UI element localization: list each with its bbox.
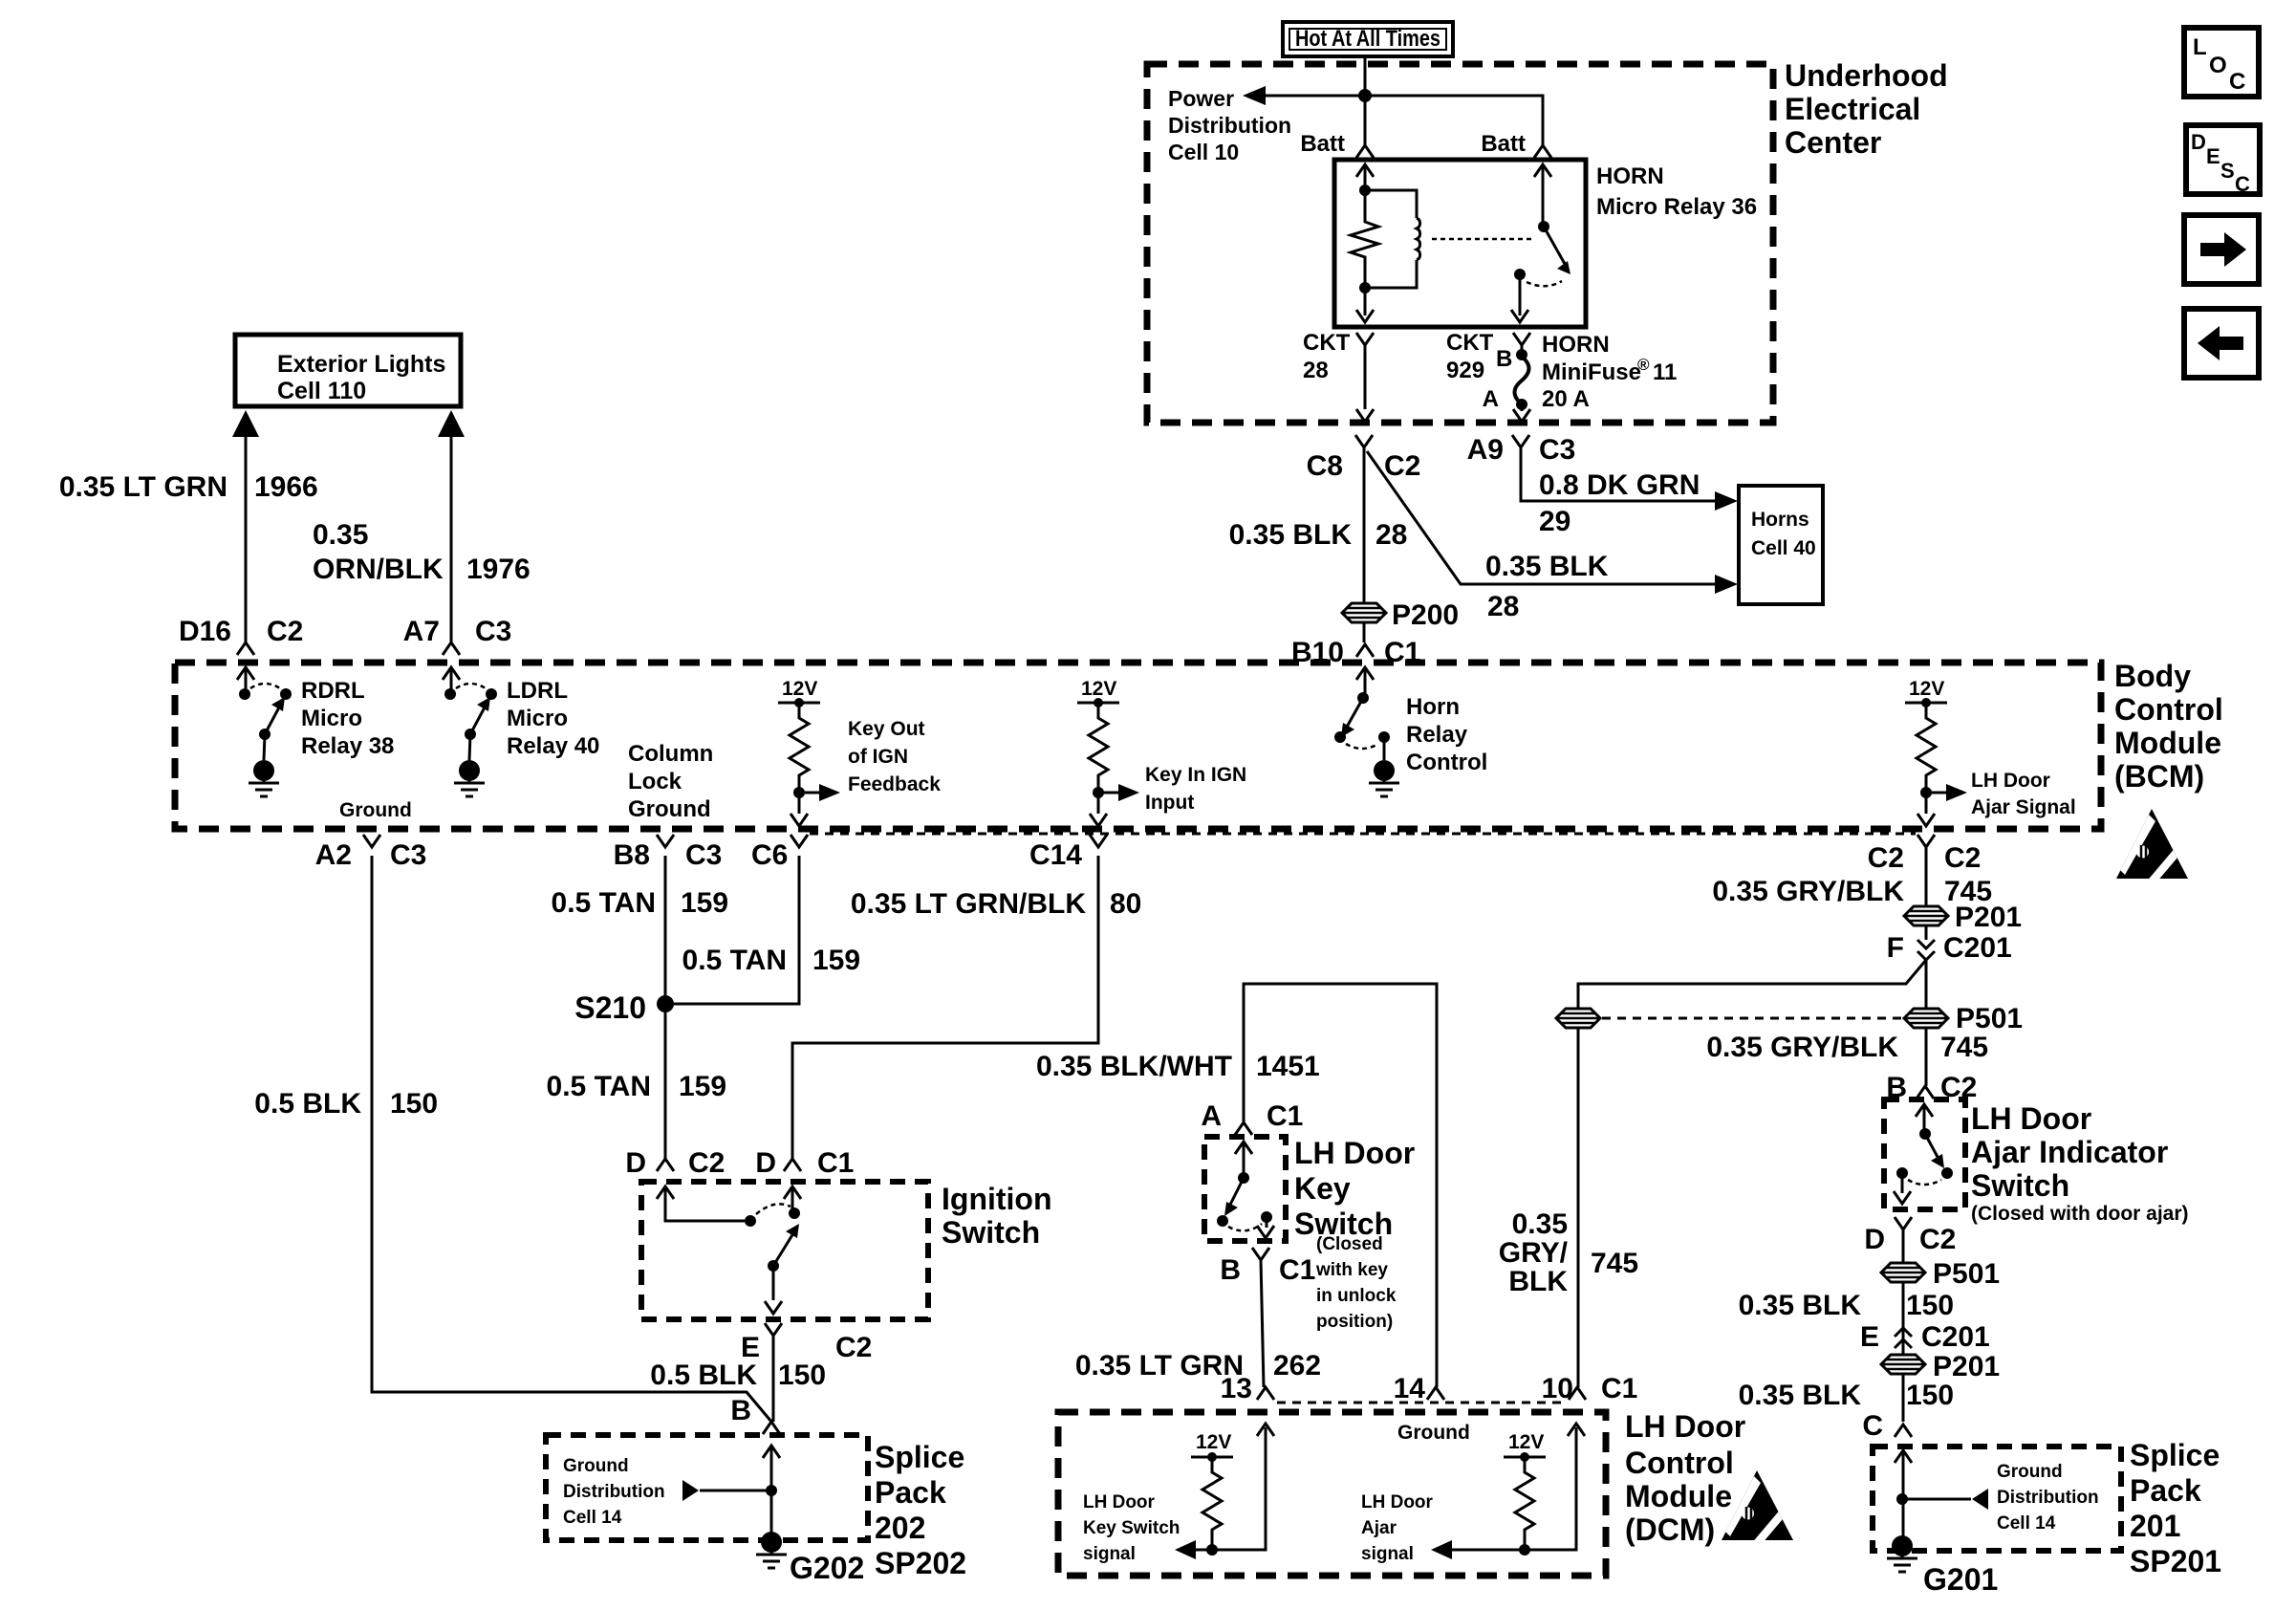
wire C6 branch to S210 [665, 856, 799, 1004]
wire P200 to BCM [1363, 622, 1366, 642]
svg-text:12V: 12V [1508, 1431, 1544, 1453]
wire 0.35 BLK 28 branch to Horns [1367, 451, 1738, 594]
pin arrow into relay switch side [1534, 164, 1551, 227]
svg-text:GRY/: GRY/ [1499, 1237, 1569, 1269]
svg-text:G202: G202 [790, 1551, 864, 1585]
label 0.35 LT GRN 262 [1075, 1350, 1321, 1382]
label 0.35 BLK 150 upper right [1739, 1290, 1954, 1321]
svg-text:S: S [2220, 159, 2235, 183]
switch LH Door Key Switch box [1204, 1137, 1286, 1241]
label A7 C3 [403, 616, 512, 647]
label 0.35 LT GRN/BLK 80 [851, 888, 1142, 920]
svg-text:Module: Module [2114, 726, 2221, 760]
svg-text:in unlock: in unlock [1316, 1286, 1397, 1306]
node coil top junction [1359, 185, 1371, 196]
svg-text:Distribution: Distribution [1997, 1488, 2099, 1508]
svg-text:Cell 14: Cell 14 [563, 1508, 622, 1528]
wire 0.5 BLK 150 ground run from A2 [372, 856, 771, 1422]
switch Horn Relay Control [1334, 667, 1399, 796]
pin arrow ignition D C2 [657, 1186, 745, 1221]
wire dashed travel arc relay [1527, 281, 1562, 286]
label Ground Distribution Cell 14 left [563, 1456, 665, 1528]
label Body Control Module BCM [2114, 659, 2223, 794]
svg-text:LH Door: LH Door [1971, 770, 2050, 792]
module box LH Door Control Module DCM [1058, 1412, 1606, 1576]
switch key movable arm [1224, 1172, 1249, 1216]
wire relay actuation dashed link [1432, 238, 1534, 241]
pin arrow ignition D C1 [784, 1186, 801, 1208]
label D C2 ajar output [1864, 1224, 1956, 1255]
wire key switch output B [1257, 1217, 1274, 1238]
wire C14 key in ign input 80 [792, 856, 1098, 1159]
connector P200 [1342, 599, 1459, 631]
module box Splice Pack 202 [546, 1435, 868, 1540]
connector P501 [1904, 1003, 2023, 1034]
svg-text:Lock: Lock [628, 769, 682, 794]
svg-text:0.35 GRY/BLK: 0.35 GRY/BLK [1712, 876, 1904, 907]
svg-text:12V: 12V [782, 678, 817, 700]
svg-text:0.35 BLK: 0.35 BLK [1229, 519, 1353, 551]
wire branch to DCM pin 10 [1578, 960, 1926, 1009]
svg-text:C2: C2 [267, 616, 303, 647]
wire RDRL output to Exterior Lights 1966 [232, 410, 259, 655]
wire lens to DCM pin 10 [1577, 1028, 1580, 1387]
svg-text:Hot At All Times: Hot At All Times [1295, 26, 1440, 52]
module box Splice Pack 201 [1873, 1447, 2121, 1551]
svg-text:0.35 LT GRN: 0.35 LT GRN [1075, 1350, 1244, 1382]
svg-text:150: 150 [390, 1088, 438, 1120]
svg-text:®: ® [1637, 356, 1650, 374]
svg-text:10: 10 [1542, 1373, 1573, 1404]
svg-text:LH Door: LH Door [1083, 1492, 1156, 1512]
label Underhood Electrical Center [1785, 58, 1948, 160]
label D C1 ignition [755, 1147, 854, 1179]
wire ground distribution branch SP201 [1896, 1489, 1988, 1510]
svg-text:C: C [2235, 172, 2250, 196]
svg-text:0.5 BLK: 0.5 BLK [650, 1360, 757, 1391]
wire LDRL output to Exterior Lights 1976 [438, 410, 465, 655]
svg-text:HORN: HORN [1542, 332, 1610, 358]
svg-text:Splice: Splice [875, 1440, 964, 1474]
svg-text:Exterior Lights: Exterior Lights [277, 351, 445, 378]
label 0.5 BLK 150 left [254, 1088, 438, 1120]
svg-text:Splice: Splice [2130, 1438, 2220, 1472]
svg-text:Ground: Ground [1997, 1462, 2063, 1482]
svg-text:A7: A7 [403, 616, 440, 647]
connector fork ajar B C2 [1917, 1086, 1934, 1099]
svg-text:Electrical: Electrical [1785, 92, 1920, 126]
label 0.35 BLK 28 main [1229, 519, 1408, 551]
wire dashed travel arc ignition [756, 1204, 791, 1214]
svg-text:A: A [1201, 1100, 1222, 1132]
svg-text:0.35 LT GRN/BLK: 0.35 LT GRN/BLK [851, 888, 1086, 920]
svg-text:L: L [2193, 34, 2207, 60]
svg-text:0.35 BLK: 0.35 BLK [1739, 1380, 1862, 1411]
svg-text:159: 159 [681, 887, 728, 919]
connector fork Batt right [1534, 145, 1551, 158]
svg-text:Switch: Switch [942, 1215, 1040, 1250]
wire BCM internal connector partition dashed [810, 833, 1916, 836]
switch ignition movable arm [768, 1224, 799, 1272]
svg-text:Micro: Micro [507, 706, 568, 731]
wire ajar output D [1894, 1173, 1911, 1204]
svg-text:C3: C3 [390, 839, 426, 871]
wire B8 column lock ground 159 [664, 856, 667, 1159]
svg-text:C1: C1 [1601, 1373, 1637, 1404]
svg-text:F: F [1887, 932, 1904, 964]
svg-text:262: 262 [1273, 1350, 1321, 1382]
svg-text:LH Door: LH Door [1625, 1409, 1745, 1444]
svg-text:C3: C3 [1539, 434, 1575, 466]
svg-text:CKT: CKT [1303, 330, 1351, 356]
svg-text:Control: Control [2114, 692, 2223, 727]
wire 0.8 DK GRN 29 to Horns [1521, 448, 1738, 511]
label A9 C3 [1467, 434, 1576, 466]
svg-text:LH Door: LH Door [1361, 1492, 1434, 1512]
label D16 C2 [179, 616, 303, 647]
wire 0.35 LT GRN 262 [1261, 1260, 1264, 1387]
svg-text:Horns: Horns [1751, 509, 1809, 531]
svg-text:12V: 12V [1909, 678, 1944, 700]
label LH Door Control Module DCM [1625, 1409, 1745, 1547]
svg-text:0.35 BLK/WHT: 0.35 BLK/WHT [1036, 1051, 1232, 1082]
label HORN Micro Relay 36 [1596, 163, 1757, 220]
label Splice Pack 201 SP201 [2130, 1438, 2221, 1578]
svg-text:ORN/BLK: ORN/BLK [313, 554, 444, 585]
connector fork A2 C3 [363, 835, 380, 847]
connector fork ignition D C2 [657, 1159, 674, 1171]
svg-text:Batt: Batt [1481, 131, 1526, 157]
svg-text:A: A [1483, 386, 1499, 412]
svg-text:Pack: Pack [2130, 1473, 2201, 1508]
icon forward arrow button [2184, 215, 2259, 284]
wire dashed travel arc key switch [1228, 1224, 1262, 1230]
resistor Key Out of IGN Feedback pull-up [778, 678, 840, 826]
svg-text:0.5 BLK: 0.5 BLK [254, 1088, 361, 1120]
svg-text:E: E [2206, 144, 2220, 168]
label LH Door Ajar signal [1361, 1492, 1434, 1564]
svg-text:Body: Body [2114, 659, 2191, 693]
wire dashed travel arc ajar [1908, 1180, 1941, 1185]
connector fork ignition D C1 [784, 1159, 801, 1171]
svg-text:C3: C3 [475, 616, 511, 647]
svg-text:0.5 TAN: 0.5 TAN [552, 887, 656, 919]
switch ajar output contact left [1896, 1167, 1908, 1179]
connector fork C8 C2 [1355, 435, 1373, 447]
connector fork C14 [1090, 835, 1107, 847]
label B C1 key switch output [1220, 1254, 1315, 1286]
svg-text:C: C [1862, 1410, 1883, 1442]
svg-text:Underhood: Underhood [1785, 58, 1948, 93]
svg-text:Feedback: Feedback [848, 773, 941, 795]
svg-text:P200: P200 [1392, 599, 1459, 631]
svg-text:B: B [1220, 1254, 1241, 1286]
svg-text:C14: C14 [1029, 839, 1082, 871]
wire 0.35 BLK/WHT 1451 loop [1244, 984, 1437, 1387]
svg-text:Distribution: Distribution [563, 1482, 665, 1502]
connector fork CKT 28 output [1356, 333, 1374, 345]
pin arrow into SP202 [763, 1446, 780, 1542]
label 0.35 GRY/BLK 745 upper [1712, 876, 1992, 907]
ground G201 [1887, 1535, 1998, 1597]
svg-text:A9: A9 [1467, 434, 1504, 466]
connector fork key switch A C1 [1235, 1122, 1252, 1135]
svg-text:D: D [1864, 1224, 1885, 1255]
svg-text:P201: P201 [1955, 902, 2022, 933]
svg-text:C1: C1 [1267, 1100, 1303, 1132]
svg-text:C2: C2 [1384, 450, 1420, 482]
resistor LH Door Ajar Signal pull-up [1905, 678, 1967, 826]
svg-text:HORN: HORN [1596, 163, 1664, 189]
label CKT 28 [1303, 330, 1351, 383]
label Splice Pack 202 SP202 [875, 1440, 966, 1580]
wire relay switch output [1511, 274, 1528, 322]
svg-text:Relay 40: Relay 40 [507, 733, 599, 759]
svg-text:C6: C6 [751, 839, 788, 871]
label 0.5 BLK 150 ignition [650, 1360, 826, 1391]
switch LH Door Ajar Indicator Switch box [1884, 1099, 1965, 1209]
icon back arrow button [2184, 309, 2259, 378]
svg-text:Micro Relay 36: Micro Relay 36 [1596, 194, 1757, 220]
svg-text:Module: Module [1625, 1479, 1732, 1513]
connector fork CKT 929 output [1513, 333, 1530, 345]
svg-text:80: 80 [1110, 888, 1141, 920]
pin arrow key switch A [1235, 1142, 1252, 1178]
svg-text:B8: B8 [614, 839, 650, 871]
resistor relay suppression [1351, 190, 1378, 288]
svg-text:S210: S210 [574, 990, 646, 1025]
label 0.35 BLK 150 lower right [1739, 1380, 1954, 1411]
svg-text:BLK: BLK [1508, 1266, 1568, 1297]
label Ignition Switch [942, 1182, 1052, 1250]
svg-text:Relay 38: Relay 38 [301, 733, 394, 759]
wire C201 down to P501 [1925, 960, 1928, 1009]
wire P501 to C201 E [1902, 1282, 1905, 1355]
svg-text:SP202: SP202 [875, 1546, 966, 1580]
switch ignition fixed contact left [745, 1215, 756, 1227]
label D C2 ignition [625, 1147, 725, 1179]
svg-text:Ground: Ground [1397, 1422, 1470, 1444]
label B C2 ajar [1886, 1072, 1977, 1103]
svg-text:CKT: CKT [1446, 330, 1494, 356]
svg-text:Relay: Relay [1406, 722, 1468, 748]
connector fork E C2 [765, 1323, 782, 1336]
svg-text:159: 159 [679, 1071, 726, 1102]
connector fork splice C [1895, 1425, 1912, 1437]
label Key Out of IGN Feedback [848, 718, 941, 795]
svg-text:150: 150 [778, 1360, 826, 1391]
wire dashed P501 link [1602, 1017, 1902, 1020]
svg-text:Micro: Micro [301, 706, 362, 731]
svg-text:Key Switch: Key Switch [1083, 1518, 1180, 1538]
node coil bottom junction [1359, 282, 1371, 294]
label 0.35 BLK/WHT 1451 [1036, 1051, 1320, 1082]
svg-text:150: 150 [1906, 1380, 1954, 1411]
svg-text:C2: C2 [1944, 842, 1981, 874]
svg-text:14: 14 [1394, 1373, 1426, 1404]
label E C201 [1860, 1321, 1990, 1353]
svg-text:202: 202 [875, 1511, 925, 1545]
svg-text:Column: Column [628, 741, 713, 767]
svg-text:929: 929 [1446, 358, 1484, 383]
svg-text:LDRL: LDRL [507, 678, 568, 704]
label A C1 key switch [1201, 1100, 1303, 1132]
connector fork F C201 double chevron [1917, 940, 1935, 960]
svg-text:0.35: 0.35 [313, 519, 368, 551]
svg-text:E: E [1860, 1321, 1879, 1353]
svg-text:(Closed: (Closed [1316, 1234, 1383, 1254]
label 0.35 GRY/BLK 745 stacked [1499, 1208, 1638, 1297]
relay RDRL Micro Relay 38 [237, 667, 292, 796]
svg-text:Ajar: Ajar [1361, 1518, 1397, 1538]
node Exterior Lights Cell 110 box [235, 335, 461, 406]
connector fork A9 C3 [1512, 435, 1529, 447]
connector fork key switch B C1 [1252, 1248, 1269, 1260]
svg-text:B: B [1496, 346, 1512, 372]
svg-text:D: D [2191, 130, 2206, 154]
svg-text:0.35 BLK: 0.35 BLK [1739, 1290, 1862, 1321]
label C8 C2 [1307, 450, 1421, 482]
fuse F1 HORN MiniFuse 11 20A [1513, 345, 1530, 422]
svg-text:29: 29 [1539, 506, 1570, 537]
svg-text:(Closed with door ajar): (Closed with door ajar) [1971, 1203, 2189, 1225]
label 0.35 ORN/BLK 1976 [313, 519, 531, 585]
svg-text:with key: with key [1315, 1260, 1388, 1280]
pin arrow into relay coil side [1356, 164, 1374, 189]
svg-text:Input: Input [1145, 792, 1194, 814]
wire P201 to SP201 [1902, 1374, 1905, 1422]
svg-text:position): position) [1316, 1312, 1393, 1332]
label LDRL Micro Relay 40 [507, 678, 599, 759]
wire Batt left [1364, 96, 1367, 145]
label 0.35 GRY/BLK 745 lower [1706, 1032, 1988, 1063]
svg-text:1976: 1976 [466, 554, 531, 585]
svg-text:13: 13 [1221, 1373, 1252, 1404]
svg-text:P501: P501 [1956, 1003, 2023, 1034]
svg-text:P501: P501 [1933, 1258, 2000, 1290]
label RDRL Micro Relay 38 [301, 678, 394, 759]
svg-text:Ajar Indicator: Ajar Indicator [1971, 1135, 2168, 1169]
connector fork B8 C3 [657, 835, 674, 847]
module box Body Control Module BCM [175, 663, 2101, 829]
relay LDRL Micro Relay 40 [443, 667, 497, 796]
wire P501 to ajar switch [1925, 1028, 1928, 1086]
module box Underhood Electrical Center [1147, 64, 1773, 423]
switch relay fixed contact [1514, 269, 1526, 280]
wire 0.35 BLK 28 main down [1363, 448, 1366, 603]
label 0.35 BLK 28 branch [1485, 551, 1609, 622]
wire ignition output E [765, 1266, 782, 1314]
wire power distribution feed [1249, 96, 1543, 145]
svg-text:0.5 TAN: 0.5 TAN [547, 1071, 651, 1102]
svg-text:150: 150 [1906, 1290, 1954, 1321]
label Ground Distribution Cell 14 right [1997, 1462, 2099, 1534]
svg-text:20 A: 20 A [1542, 386, 1590, 412]
svg-text:Control: Control [1406, 750, 1487, 775]
label 0.5 TAN 159 branch [682, 945, 861, 976]
svg-text:11: 11 [1653, 359, 1677, 385]
connector fork DCM pin 14 [1427, 1387, 1444, 1400]
connector fork splice B [763, 1422, 780, 1434]
svg-text:201: 201 [2130, 1509, 2180, 1543]
relay K1 HORN Micro Relay 36 box [1334, 160, 1586, 327]
svg-text:745: 745 [1940, 1032, 1988, 1063]
svg-text:B: B [730, 1395, 751, 1426]
svg-text:A2: A2 [315, 839, 352, 871]
label HORN MiniFuse 11 20 A [1542, 332, 1677, 412]
label LH Door Ajar Signal [1971, 770, 2076, 818]
wire BCM C2 745 down [1925, 847, 1928, 906]
label 0.8 DK GRN 29 [1539, 469, 1700, 537]
svg-text:D: D [625, 1147, 646, 1179]
switch Ignition Switch box [641, 1182, 928, 1319]
svg-text:Batt: Batt [1300, 131, 1345, 157]
svg-text:C2: C2 [1868, 842, 1904, 874]
wire from Hot At All Times down [1364, 56, 1367, 96]
svg-text:0.35 LT GRN: 0.35 LT GRN [59, 471, 227, 503]
svg-text:0.35 GRY/BLK: 0.35 GRY/BLK [1706, 1032, 1898, 1063]
switch key output contact right [1261, 1211, 1272, 1223]
svg-text:Pack: Pack [875, 1475, 946, 1510]
svg-text:C2: C2 [835, 1332, 872, 1363]
svg-text:28: 28 [1487, 591, 1519, 622]
icon ESD sensitive symbol DCM [1722, 1470, 1793, 1551]
svg-text:D: D [755, 1147, 776, 1179]
label F C201 [1887, 932, 2012, 964]
resistor LH Door Ajar signal pull-up [1431, 1424, 1585, 1559]
svg-text:Center: Center [1785, 125, 1881, 160]
svg-text:(BCM): (BCM) [2114, 759, 2204, 794]
switch key fixed contact left [1217, 1215, 1228, 1227]
label closed with key in unlock position [1315, 1234, 1397, 1332]
label E C2 [741, 1332, 872, 1363]
svg-text:D16: D16 [179, 616, 231, 647]
label pins 13 14 10 C1 [1221, 1373, 1638, 1404]
svg-text:Control: Control [1625, 1446, 1734, 1480]
label Power Distribution Cell 10 [1168, 86, 1291, 164]
arrow to Power Distribution Cell 10 [1243, 86, 1266, 105]
inductor relay coil [1365, 190, 1420, 288]
switch ignition upper contact [789, 1207, 800, 1219]
label LH Door Key Switch signal [1083, 1492, 1180, 1564]
svg-text:O: O [2209, 53, 2227, 78]
connector P501 lower [1881, 1258, 2000, 1290]
wire coil output [1356, 288, 1374, 322]
label Horn Relay Control [1406, 694, 1487, 775]
svg-text:C2: C2 [688, 1147, 725, 1179]
label B8 C3 C6 [614, 839, 789, 871]
label A2 C3 [315, 839, 427, 871]
svg-text:745: 745 [1591, 1248, 1638, 1279]
label 0.5 TAN 159 lower [547, 1071, 727, 1102]
svg-text:Distribution: Distribution [1168, 113, 1291, 138]
switch ajar movable arm [1919, 1128, 1944, 1168]
ground G202 [756, 1532, 864, 1585]
switch relay movable contact [1538, 221, 1570, 274]
svg-text:C: C [2229, 69, 2245, 95]
svg-text:Key In IGN: Key In IGN [1145, 764, 1246, 786]
svg-text:signal: signal [1083, 1544, 1136, 1564]
icon ESD sensitive symbol BCM [2116, 809, 2188, 889]
pin arrow ajar B [1916, 1104, 1933, 1134]
svg-text:Cell 110: Cell 110 [277, 378, 366, 404]
svg-text:Ground: Ground [563, 1456, 629, 1476]
label B10 C1 [1291, 637, 1420, 668]
svg-text:0.35: 0.35 [1512, 1208, 1568, 1240]
label 0.35 LT GRN 1966 [59, 471, 318, 503]
svg-text:12V: 12V [1196, 1431, 1231, 1453]
node junction dot at power feed [1358, 89, 1372, 102]
